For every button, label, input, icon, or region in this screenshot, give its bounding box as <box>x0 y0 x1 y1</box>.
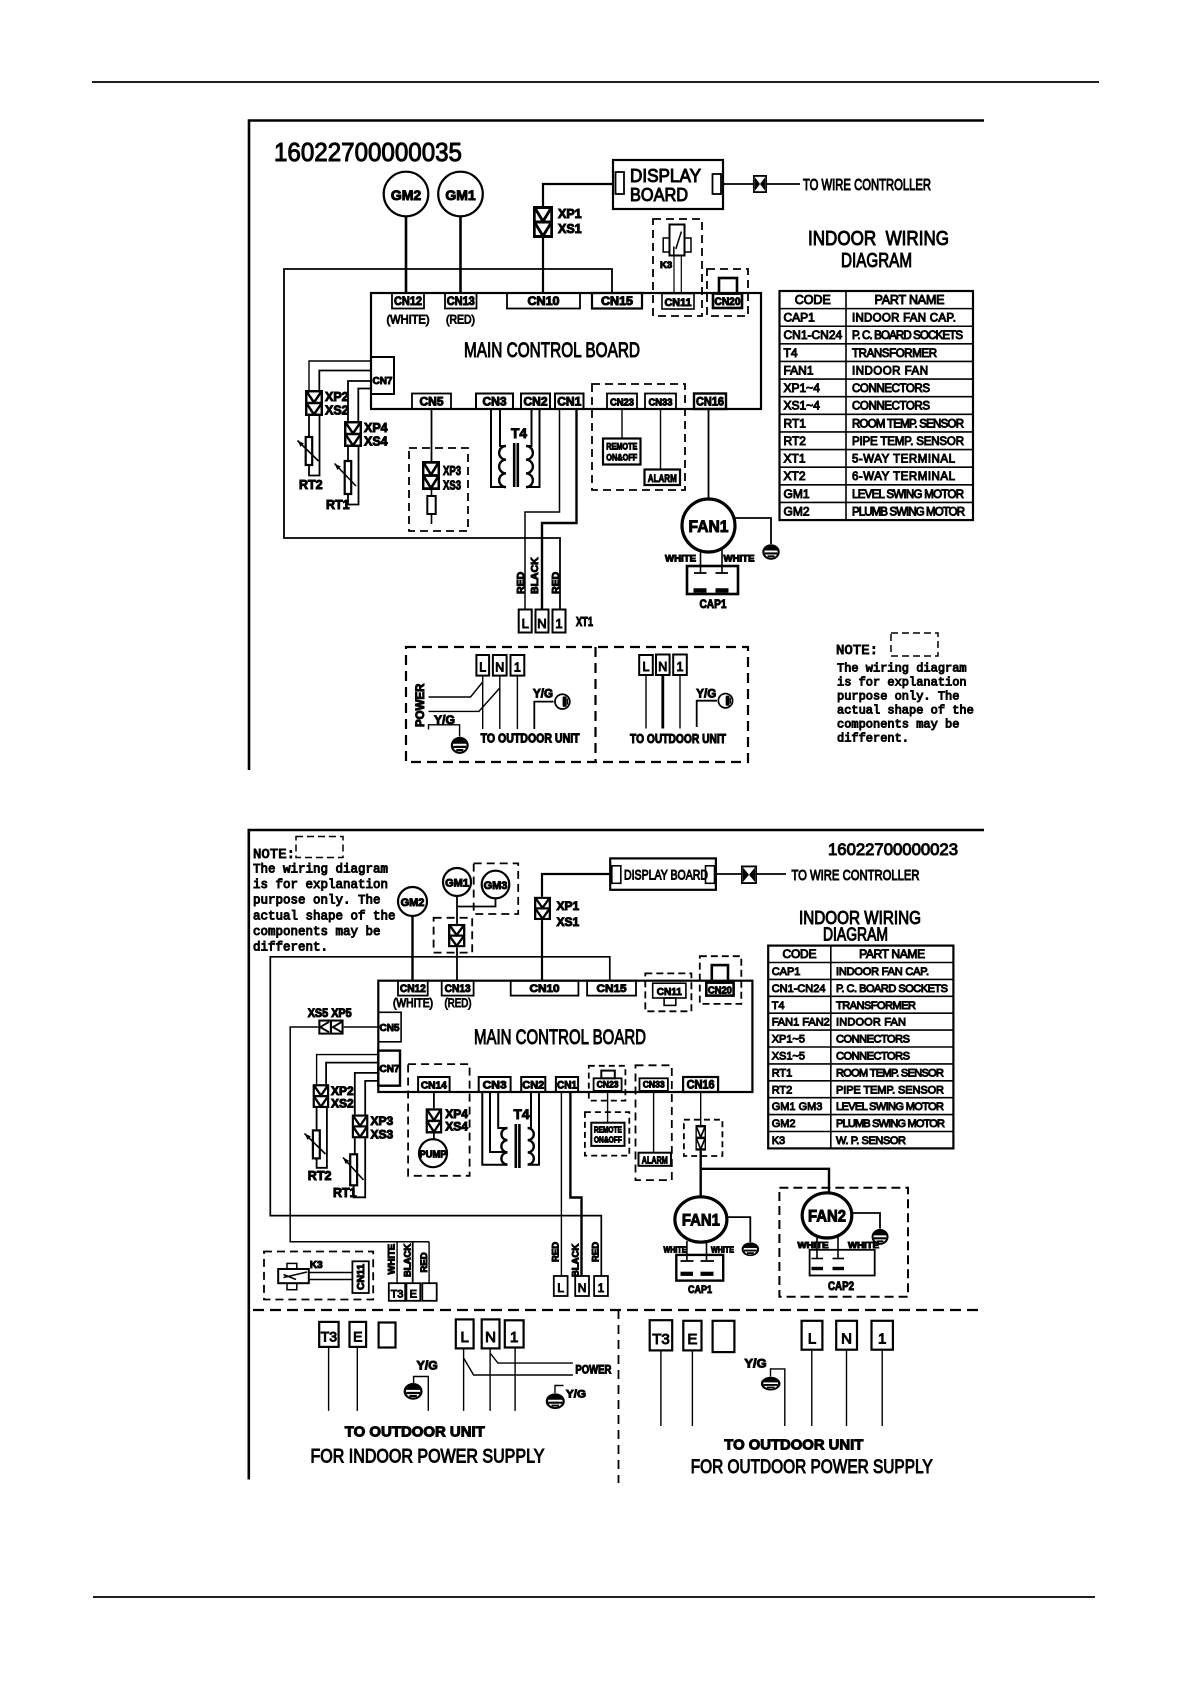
svg-text:XP1~4: XP1~4 <box>784 381 821 395</box>
svg-text:different.: different. <box>253 941 328 955</box>
svg-text:FAN1: FAN1 <box>682 1212 720 1230</box>
CN20 top stub <box>719 278 737 294</box>
room sensor RT1 loop wires <box>347 447 349 461</box>
earth wire Y/G (left cell) <box>429 725 460 737</box>
K3 left tab <box>663 238 669 252</box>
diagram 1 frame (left + top edges) <box>249 121 984 771</box>
svg-text:XP2: XP2 <box>325 390 349 404</box>
terminal 1 (bottom right) <box>872 1321 893 1350</box>
svg-text:Y/G: Y/G <box>566 1389 586 1401</box>
room sensor RT2 loop wires <box>308 416 310 437</box>
wire XS4 to pump <box>433 1134 435 1140</box>
CAP2 ticks <box>812 1258 824 1260</box>
terminal L (bottom right) <box>802 1321 823 1350</box>
wire GM1 to connector <box>456 896 458 924</box>
svg-text:LEVEL SWING MOTOR: LEVEL SWING MOTOR <box>852 489 964 501</box>
svg-text:RT2: RT2 <box>308 1169 332 1183</box>
socket CN15 (d2) <box>587 981 636 996</box>
svg-text:CN5: CN5 <box>420 397 445 409</box>
svg-text:FAN1 FAN2: FAN1 FAN2 <box>772 1017 830 1029</box>
CAP1 ticks (d2) <box>681 1260 694 1262</box>
connector pair XP2/XS2 (d2) <box>314 1085 328 1107</box>
connector pair XP4/XS4 (d2) <box>427 1109 441 1132</box>
socket CN11 dashed enclosure (d2) <box>645 973 691 1011</box>
dashed enclosure remote (d2) <box>585 1112 629 1156</box>
terminal XT1-1 <box>553 610 566 633</box>
svg-text:XP1: XP1 <box>557 899 580 913</box>
svg-text:LEVEL SWING MOTOR: LEVEL SWING MOTOR <box>836 1101 944 1113</box>
alarm box <box>645 470 681 486</box>
svg-text:RED: RED <box>419 1252 430 1272</box>
svg-text:1: 1 <box>598 1281 605 1295</box>
svg-text:DIAGRAM: DIAGRAM <box>823 925 888 945</box>
socket CN16 <box>694 394 726 410</box>
wire CN3 pin2 (d2) <box>490 1092 508 1152</box>
bottom sockets (d2): CN14 <box>418 1077 450 1092</box>
K3 top tab (d2) <box>287 1263 297 1269</box>
svg-text:WHITE: WHITE <box>387 1244 398 1275</box>
socket CN10 <box>507 293 580 309</box>
svg-text:E: E <box>353 1329 362 1345</box>
svg-text:6-WAY TERMINAL: 6-WAY TERMINAL <box>852 471 956 483</box>
K3 bottom tab (d2) <box>287 1283 297 1290</box>
svg-text:N: N <box>578 1281 587 1295</box>
svg-text:CN14: CN14 <box>421 1080 447 1092</box>
wire 1 down <box>516 676 518 729</box>
wire CN1 pin1 RED (d2) <box>560 1092 562 1276</box>
display board left tab (d2) <box>612 866 621 884</box>
svg-text:CN33: CN33 <box>643 1079 665 1090</box>
socket CN33 (d2) <box>640 1078 668 1091</box>
terminal blank (d2 mid-left) <box>422 1283 436 1301</box>
water pump PUMP <box>419 1139 447 1167</box>
terminal XT1-N <box>536 610 549 633</box>
svg-text:N: N <box>658 660 667 674</box>
socket CN20 dashed enclosure (d2) <box>700 956 742 1004</box>
K3 lever (d2) <box>284 1272 308 1280</box>
page top rule <box>92 81 1099 83</box>
ground symbol FAN2 <box>873 1230 888 1244</box>
svg-text:FAN1: FAN1 <box>784 363 814 377</box>
svg-text:T3: T3 <box>652 1331 670 1348</box>
svg-text:POWER: POWER <box>415 683 427 727</box>
svg-text:CN10: CN10 <box>528 296 560 308</box>
K3 lever <box>674 232 682 256</box>
socket CN20 <box>713 294 742 309</box>
svg-text:XS3: XS3 <box>371 1128 394 1142</box>
wire FAN1 to CAP1 right <box>721 550 723 574</box>
svg-text:TO OUTDOOR UNIT: TO OUTDOOR UNIT <box>630 732 726 746</box>
connector pair XP1/XS1 (d2) <box>535 898 550 919</box>
wire display to XP1 (d2) <box>542 874 610 897</box>
socket CN11 (d2) <box>653 983 686 998</box>
svg-text:CN1: CN1 <box>557 1080 577 1092</box>
svg-text:FOR INDOOR POWER SUPPLY: FOR INDOOR POWER SUPPLY <box>311 1447 545 1468</box>
svg-text:ROOM TEMP. SENSOR: ROOM TEMP. SENSOR <box>852 418 964 430</box>
K3 right tab <box>685 238 692 252</box>
socket CN13 <box>445 293 477 309</box>
wire XS1 to CN10 <box>542 238 544 293</box>
motor GM1 <box>438 172 483 217</box>
ground symbol FAN1 (d2) <box>743 1243 758 1255</box>
wire junction to FAN2 <box>701 1169 829 1193</box>
terminal L (left cell) <box>476 655 489 676</box>
svg-text:RT1: RT1 <box>772 1067 793 1079</box>
svg-text:FAN1: FAN1 <box>689 517 729 536</box>
wire XS3 to resistor <box>431 490 433 496</box>
svg-text:INDOOR FAN: INDOOR FAN <box>852 365 928 377</box>
svg-text:16022700000023: 16022700000023 <box>828 840 958 859</box>
display board left pin tab <box>616 172 625 194</box>
capacitor CAP2 <box>810 1250 875 1276</box>
svg-text:P. C. BOARD SOCKETS: P. C. BOARD SOCKETS <box>836 983 948 995</box>
sensor K3 body <box>670 225 685 256</box>
wire display to controller (d2) <box>716 873 741 875</box>
svg-text:FOR OUTDOOR POWER SUPPLY: FOR OUTDOOR POWER SUPPLY <box>691 1457 933 1478</box>
sensor K3 body (d2) <box>278 1269 309 1283</box>
connector pair XP2/XS2 <box>306 391 322 415</box>
svg-text:components may be: components may be <box>837 718 959 732</box>
terminal L (bottom left) <box>456 1319 474 1348</box>
terminal N (left cell) <box>493 655 507 676</box>
terminal N (d2 mid) <box>575 1276 589 1296</box>
svg-text:INDOOR FAN: INDOOR FAN <box>836 1017 906 1029</box>
svg-text:CONNECTORS: CONNECTORS <box>836 1034 910 1046</box>
svg-text:CAP1: CAP1 <box>772 966 801 978</box>
terminal L (right cell) <box>639 655 653 675</box>
svg-text:XS5 XP5: XS5 XP5 <box>308 1008 353 1020</box>
wire CN5 to XP3 <box>431 409 433 461</box>
socket CN2 (d2) <box>521 1077 545 1092</box>
wire display board to wire-controller connector <box>723 183 753 185</box>
svg-text:GM1: GM1 <box>784 487 810 501</box>
svg-text:GM1: GM1 <box>445 187 476 203</box>
svg-text:purpose only. The: purpose only. The <box>837 690 959 704</box>
dashed enclosure CN23/CN33 <box>592 384 685 490</box>
svg-text:CAP2: CAP2 <box>828 1281 854 1293</box>
svg-text:1: 1 <box>514 661 521 675</box>
svg-text:CN13: CN13 <box>447 296 475 308</box>
wire CN7 pin2 to XP2 (d2) <box>326 1063 378 1085</box>
svg-text:(WHITE): (WHITE) <box>387 313 430 327</box>
dashed separator horizontal <box>253 1309 981 1311</box>
wire display board to XP1 <box>543 184 613 206</box>
svg-text:TO OUTDOOR UNIT: TO OUTDOOR UNIT <box>481 732 580 746</box>
terminal 1 (d2 mid) <box>594 1276 608 1296</box>
svg-text:WHITE: WHITE <box>848 1240 879 1250</box>
plug symbol (left cell) <box>555 694 570 709</box>
svg-text:REMOTE: REMOTE <box>594 1125 622 1135</box>
svg-text:INDOOR FAN CAP.: INDOOR FAN CAP. <box>852 313 956 325</box>
svg-text:BOARD: BOARD <box>630 185 688 205</box>
svg-text:GM2: GM2 <box>401 897 425 909</box>
svg-text:BLACK: BLACK <box>403 1244 414 1277</box>
socket CN10 (d2) <box>511 981 579 996</box>
svg-text:XS1: XS1 <box>557 915 580 929</box>
dashed enclosure CN16 connector (d2) <box>684 1120 723 1156</box>
svg-text:DISPLAY BOARD: DISPLAY BOARD <box>624 867 708 883</box>
svg-text:CODE: CODE <box>783 947 817 961</box>
svg-text:GM1 GM3: GM1 GM3 <box>772 1101 823 1113</box>
page bottom rule <box>93 1596 1095 1598</box>
socket CN11 <box>662 294 694 310</box>
svg-text:PIPE TEMP. SENSOR: PIPE TEMP. SENSOR <box>852 436 964 448</box>
svg-text:Y/G: Y/G <box>696 687 716 701</box>
socket CN5 (d2) <box>378 1012 401 1042</box>
svg-text:K3: K3 <box>660 260 672 271</box>
capacitor CAP1 (d2) <box>676 1255 723 1281</box>
svg-text:WHITE: WHITE <box>665 554 696 565</box>
svg-text:PLUMB SWING MOTOR: PLUMB SWING MOTOR <box>852 506 965 518</box>
wire resistor stub <box>431 514 433 524</box>
wire CN33 to alarm (d2) <box>653 1091 655 1153</box>
remote on/off box (d2) <box>591 1123 624 1146</box>
svg-text:N: N <box>485 1329 496 1346</box>
svg-text:XS2: XS2 <box>325 404 349 418</box>
terminal 1 (bottom left) <box>505 1320 524 1347</box>
svg-text:XP4: XP4 <box>364 421 388 435</box>
dashed enclosure K3/CN11 (d2) <box>264 1252 373 1300</box>
wire CN2 pin1 (d2) <box>528 1092 531 1128</box>
terminal N (right cell) <box>656 655 670 676</box>
svg-text:ROOM TEMP. SENSOR: ROOM TEMP. SENSOR <box>836 1067 944 1079</box>
svg-text:CN1: CN1 <box>557 397 582 409</box>
svg-text:GM2: GM2 <box>772 1118 796 1130</box>
display board U-DB1 <box>613 160 723 209</box>
wire XP5 to CN5 <box>344 1026 379 1028</box>
diagram 2 frame (left + top edges) <box>249 830 984 1480</box>
svg-text:CN1-CN24: CN1-CN24 <box>784 328 843 342</box>
svg-text:purpose only. The: purpose only. The <box>253 894 381 908</box>
note dashed box <box>891 633 938 656</box>
wire L down (bottom left) <box>463 1348 465 1411</box>
socket CN12 <box>392 293 424 309</box>
svg-text:CN15: CN15 <box>597 983 627 995</box>
svg-text:(RED): (RED) <box>446 313 475 327</box>
svg-text:different.: different. <box>837 732 909 746</box>
connector pair under CN16 (d2) <box>696 1126 705 1149</box>
float resistor <box>427 496 435 514</box>
plug symbol (right cell) <box>718 694 732 708</box>
svg-text:TO OUTDOOR UNIT: TO OUTDOOR UNIT <box>345 1424 485 1441</box>
svg-text:NOTE:: NOTE: <box>253 847 295 863</box>
svg-text:POWER: POWER <box>575 1365 612 1377</box>
dashed enclosure pump assembly <box>408 1064 470 1176</box>
svg-text:RT1: RT1 <box>784 416 807 430</box>
dashed enclosure XP3/XS3 <box>409 448 468 531</box>
wire L to power line1 <box>429 682 483 697</box>
svg-text:CN13: CN13 <box>445 983 471 995</box>
svg-text:XP1~5: XP1~5 <box>772 1034 805 1046</box>
svg-text:1: 1 <box>555 616 562 631</box>
svg-text:T3: T3 <box>321 1329 338 1345</box>
motor GM2 <box>384 172 429 217</box>
svg-text:XT2: XT2 <box>784 469 806 483</box>
wire N to power <box>490 1353 573 1363</box>
svg-text:MAIN CONTROL BOARD: MAIN CONTROL BOARD <box>474 1026 646 1049</box>
socket CN7 (d2) <box>378 1051 400 1086</box>
pipe temp sensor RT2 <box>306 437 313 465</box>
svg-text:RT1: RT1 <box>326 498 350 512</box>
svg-text:(RED): (RED) <box>445 998 472 1010</box>
wire CN7 pin3 to XP3 (d2) <box>355 1073 379 1115</box>
svg-text:RT1: RT1 <box>333 1186 357 1200</box>
svg-text:1: 1 <box>677 660 684 674</box>
svg-text:CN2: CN2 <box>522 1080 544 1092</box>
svg-text:REMOTE: REMOTE <box>606 442 637 453</box>
connector pair XS5/XP5 horizontal <box>319 1021 342 1034</box>
socket CN13 (d2) <box>442 981 474 996</box>
svg-text:CN3: CN3 <box>483 397 507 409</box>
earth ground (bottom left) <box>405 1384 422 1399</box>
svg-text:(WHITE): (WHITE) <box>393 998 433 1010</box>
capacitor CAP1 box <box>687 566 738 594</box>
wire FAN2 to CAP2 <box>816 1237 818 1258</box>
svg-text:L: L <box>479 661 486 675</box>
socket CN16 (d2) <box>683 1077 718 1092</box>
svg-text:PIPE TEMP. SENSOR: PIPE TEMP. SENSOR <box>836 1084 944 1096</box>
dashed enclosure CN23 top (d2) <box>589 1066 626 1101</box>
svg-text:L: L <box>461 1329 469 1346</box>
socket CN12 (d2) <box>398 981 428 996</box>
earth ground right (bottom left) <box>547 1394 564 1408</box>
wire to label (d2) <box>757 873 786 875</box>
svg-text:INDOOR WIRING: INDOOR WIRING <box>808 228 949 250</box>
svg-text:DIAGRAM: DIAGRAM <box>841 250 912 272</box>
svg-text:MAIN CONTROL BOARD: MAIN CONTROL BOARD <box>464 339 640 362</box>
svg-text:P. C. BOARD SOCKETS: P. C. BOARD SOCKETS <box>852 330 963 342</box>
wire CN16 to connector (d2) <box>700 1092 702 1125</box>
wire connector to label <box>767 183 800 185</box>
svg-text:CN20: CN20 <box>708 985 732 997</box>
indoor fan FAN2 <box>802 1193 852 1238</box>
svg-text:CN11: CN11 <box>356 1264 367 1290</box>
connector to wire controller <box>754 176 766 192</box>
svg-text:CN10: CN10 <box>530 983 560 995</box>
connector pair XP3/XS3 (d2) <box>353 1116 367 1138</box>
svg-text:Y/G: Y/G <box>533 687 553 701</box>
svg-text:RED: RED <box>515 571 527 594</box>
svg-text:CN33: CN33 <box>649 398 673 409</box>
dashed enclosure GM3 <box>474 863 519 914</box>
svg-text:L: L <box>808 1331 816 1348</box>
indoor fan FAN1 <box>682 499 735 552</box>
socket CN33 <box>645 394 676 410</box>
svg-text:XS3: XS3 <box>443 479 461 493</box>
svg-text:INDOOR FAN CAP.: INDOOR FAN CAP. <box>836 966 929 978</box>
svg-text:XT1: XT1 <box>576 615 593 629</box>
wire CN3 pin2 to winding top <box>500 409 506 446</box>
transformer T4 core <box>513 443 516 487</box>
ground symbol <box>763 545 778 559</box>
sensor RT1 loop (d2) <box>354 1138 356 1154</box>
wire CN7 pin2 to XP2 <box>319 371 371 391</box>
svg-text:16022700000035: 16022700000035 <box>274 137 462 167</box>
CAP1 terminal ticks <box>694 572 707 574</box>
svg-text:CONNECTORS: CONNECTORS <box>852 401 930 413</box>
svg-text:Y/G: Y/G <box>417 1361 438 1373</box>
svg-text:TO WIRE CONTROLLER: TO WIRE CONTROLLER <box>803 177 931 194</box>
wire FAN1 to CAP1 left <box>700 550 702 574</box>
room temp sensor RT1 <box>345 461 352 494</box>
outdoor connection dashed enclosure <box>406 647 748 762</box>
remote on/off box <box>603 439 641 465</box>
svg-text:K3: K3 <box>772 1135 785 1147</box>
socket CN20 dashed enclosure <box>707 269 748 316</box>
svg-text:E: E <box>410 1289 417 1301</box>
svg-text:GM1: GM1 <box>445 878 469 890</box>
main control board outline (d2) <box>378 981 752 1092</box>
wire XS5 to terminals (d2) <box>290 1027 429 1242</box>
wire CN7 pin1 to XP2 (d2) <box>317 1055 379 1085</box>
wire CN7 pin3 to XP4 <box>348 381 371 421</box>
svg-text:XS4: XS4 <box>445 1120 468 1134</box>
wire FAN2 to ground <box>852 1213 880 1229</box>
wire 1 down (right cell) <box>679 675 681 729</box>
svg-text:XS1~4: XS1~4 <box>784 399 821 413</box>
wire XS1 to CN10 (d2) <box>541 920 543 981</box>
svg-text:Y/G: Y/G <box>745 1359 767 1371</box>
svg-text:WHITE: WHITE <box>711 1245 734 1255</box>
svg-text:E: E <box>687 1331 697 1348</box>
socket CN1 <box>555 394 584 410</box>
wires to XT2 terminals WHITE/BLACK/RED <box>396 1242 398 1284</box>
secondary winding (d2) <box>528 1128 534 1165</box>
connector pair XP1/XS1 <box>534 207 551 236</box>
svg-text:CN3: CN3 <box>483 1080 507 1092</box>
svg-text:T4: T4 <box>511 425 527 441</box>
svg-text:CONNECTORS: CONNECTORS <box>852 383 930 395</box>
svg-text:L: L <box>522 616 529 631</box>
svg-text:ON&OFF: ON&OFF <box>606 453 637 464</box>
sensor RT2 loop (d2) <box>316 1108 318 1130</box>
display board (d2) <box>610 858 716 889</box>
svg-text:RED: RED <box>591 1242 602 1262</box>
wire CN2 pin1 to secondary top <box>526 409 532 446</box>
transformer primary winding <box>499 446 506 487</box>
terminal blank (bottom left) <box>379 1323 396 1348</box>
wire CN3 pin1 to winding bottom <box>491 409 506 487</box>
wire CN15 around board (d2) <box>270 957 610 1276</box>
svg-text:L: L <box>557 1281 564 1295</box>
svg-text:XS1: XS1 <box>558 222 582 236</box>
svg-text:BLACK: BLACK <box>571 1244 582 1277</box>
wire connector to FAN1/FAN2 junction (d2) <box>700 1151 702 1197</box>
earth ground (bottom right) <box>762 1378 779 1390</box>
svg-text:CN2: CN2 <box>524 397 548 409</box>
wire to plug (left cell) <box>534 702 553 729</box>
pipe temp sensor RT2 (d2) <box>313 1130 320 1158</box>
wire CN33 to alarm <box>660 409 662 470</box>
svg-text:T4: T4 <box>514 1106 530 1122</box>
svg-text:ON&OFF: ON&OFF <box>594 1135 622 1145</box>
svg-text:TO WIRE CONTROLLER: TO WIRE CONTROLLER <box>792 867 920 884</box>
dashed separator vertical <box>618 1310 620 1483</box>
svg-text:PART NAME: PART NAME <box>859 947 925 961</box>
terminal T3 (bottom right) <box>650 1320 673 1350</box>
wire CN16 to FAN1 <box>708 409 710 499</box>
svg-text:N: N <box>537 616 546 631</box>
svg-text:The wiring diagram: The wiring diagram <box>837 662 967 676</box>
svg-text:BLACK: BLACK <box>529 557 541 594</box>
transformer core (d2) <box>514 1124 517 1168</box>
wire connector to CN13 (d2) <box>456 947 458 980</box>
CAP1 plates (d2) <box>681 1272 694 1276</box>
svg-text:XP3: XP3 <box>371 1114 394 1128</box>
svg-text:RED: RED <box>551 1242 562 1262</box>
note dashed box 2 <box>296 837 343 858</box>
svg-text:is for explanation: is for explanation <box>253 878 388 892</box>
